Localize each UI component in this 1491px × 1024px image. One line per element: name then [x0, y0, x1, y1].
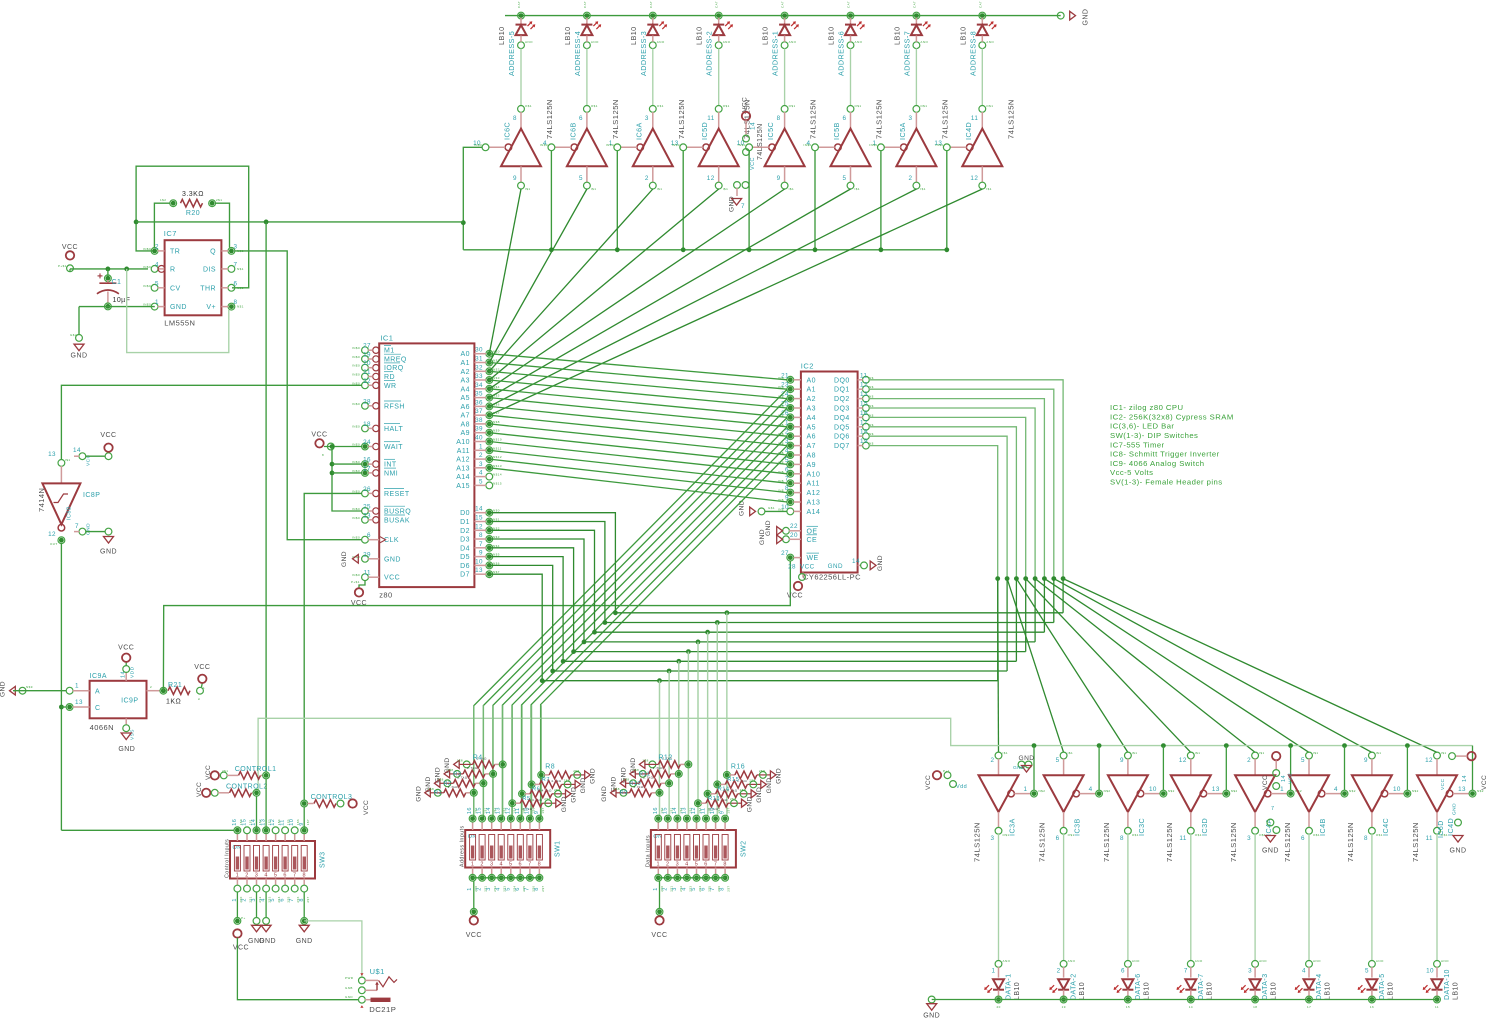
- wire SW3 pin1 to VCC: [236, 892, 238, 918]
- svg-text:ADDRESS-6: ADDRESS-6: [837, 31, 846, 76]
- LED DATA-7 LB10: [1187, 961, 1194, 968]
- svg-text:IC2- 256K(32x8) Cypress SRAM: IC2- 256K(32x8) Cypress SRAM: [1110, 412, 1234, 421]
- svg-text:LB10: LB10: [1387, 982, 1394, 1000]
- resistor pulldown R2: [434, 779, 440, 787]
- svg-text:GND: GND: [590, 768, 597, 784]
- svg-text:8: 8: [302, 873, 306, 879]
- svg-text:I$1: I$1: [591, 187, 597, 191]
- svg-text:6: 6: [704, 862, 708, 868]
- wire D1 to SW2: [715, 620, 720, 625]
- svg-text:16: 16: [467, 807, 473, 814]
- pin RFSH IC1: [362, 402, 369, 409]
- svg-text:1: 1: [155, 299, 159, 306]
- svg-text:15: 15: [477, 807, 483, 814]
- ground CE: [777, 535, 783, 544]
- svg-text:IC5B: IC5B: [832, 122, 841, 140]
- wire LED to ground bus: [1063, 990, 1065, 997]
- svg-text:GND: GND: [71, 353, 88, 360]
- svg-text:2: 2: [479, 452, 483, 459]
- wire switch net vertical: [511, 705, 513, 815]
- svg-text:2: 2: [1057, 968, 1061, 975]
- svg-text:O$1: O$1: [1313, 833, 1320, 837]
- svg-text:GND: GND: [100, 549, 117, 556]
- svg-text:A4: A4: [461, 386, 470, 393]
- svg-text:2: 2: [477, 887, 483, 891]
- wire DQ2 from IC2: [869, 399, 1044, 579]
- svg-text:G$1: G$1: [768, 506, 775, 510]
- svg-text:10: 10: [1149, 786, 1157, 793]
- pin D5 IC1: [486, 553, 493, 560]
- wire enable drop: [748, 151, 750, 250]
- wire buffer to LED: [1063, 834, 1065, 961]
- svg-text:O$1: O$1: [525, 104, 532, 108]
- svg-text:N$2: N$2: [1168, 789, 1175, 793]
- pin A13 IC2: [787, 499, 794, 506]
- svg-text:LM555N: LM555N: [164, 319, 195, 328]
- svg-text:IC8- Schmitt Trigger Inverter: IC8- Schmitt Trigger Inverter: [1110, 450, 1220, 459]
- wire enable drop bottom: [1472, 746, 1474, 791]
- svg-text:I$1: I$1: [920, 187, 926, 191]
- svg-text:VCC: VCC: [787, 593, 803, 600]
- svg-text:CAT: CAT: [517, 1, 521, 8]
- svg-text:74LS125N: 74LS125N: [1346, 822, 1355, 862]
- svg-text:7: 7: [714, 862, 718, 868]
- svg-text:O$1: O$1: [1003, 833, 1010, 837]
- wire enable drop: [550, 151, 552, 250]
- svg-text:2$7: 2$7: [541, 885, 545, 891]
- svg-text:LB10: LB10: [1271, 982, 1278, 1000]
- svg-text:5: 5: [691, 887, 697, 891]
- wire data net D6: [489, 565, 1007, 671]
- IC7 LM555N timer: [165, 240, 222, 315]
- pin A5 IC1: [486, 394, 493, 401]
- pin RESET IC1: [362, 490, 369, 497]
- svg-text:19: 19: [363, 352, 371, 359]
- svg-text:10µF: 10µF: [113, 297, 131, 304]
- svg-text:RESET: RESET: [384, 491, 410, 498]
- svg-text:2$8: 2$8: [564, 778, 570, 782]
- svg-text:GND: GND: [384, 556, 401, 563]
- LED ADDRESS-7 LB10: [914, 13, 919, 18]
- pin A11 IC2: [787, 480, 794, 487]
- wire R20 to TR: [154, 203, 170, 247]
- resistor CONTROL3: [301, 800, 308, 807]
- pin M1 IC1: [362, 347, 369, 354]
- svg-text:I$1: I$1: [1195, 751, 1201, 755]
- svg-text:DATA-1: DATA-1: [1006, 973, 1013, 1000]
- wire LED to buffer: [586, 36, 588, 42]
- svg-text:A2: A2: [807, 396, 816, 403]
- svg-text:IN$0: IN$0: [869, 143, 877, 147]
- svg-text:74LS125N: 74LS125N: [757, 123, 764, 160]
- pin DQ1 IC2: [863, 386, 870, 393]
- svg-text:5: 5: [843, 175, 847, 182]
- svg-text:1: 1: [657, 862, 661, 868]
- svg-text:3: 3: [645, 115, 649, 122]
- wire D0 to SW2: [725, 610, 730, 615]
- svg-text:IN$0: IN$0: [804, 143, 812, 147]
- svg-text:I$1: I$1: [789, 187, 795, 191]
- LED DATA-5 LB10: [1369, 961, 1376, 968]
- svg-text:IN$0: IN$0: [352, 424, 360, 428]
- svg-text:D1: D1: [460, 519, 470, 526]
- svg-text:2: 2: [908, 175, 912, 182]
- svg-text:LB10: LB10: [1079, 982, 1086, 1000]
- wire VCC U to V+ pin: [127, 269, 229, 353]
- svg-text:2: 2: [662, 887, 668, 891]
- svg-text:N$9: N$9: [26, 685, 33, 689]
- svg-text:74LS125N: 74LS125N: [611, 99, 620, 139]
- DIP switch SW2 Data Inputs: [651, 830, 736, 868]
- switch element 1 SW3: [234, 846, 240, 872]
- svg-text:RD: RD: [384, 374, 395, 381]
- power VCC 4066: [125, 672, 127, 681]
- svg-text:IC1- zilog z80 CPU: IC1- zilog z80 CPU: [1110, 403, 1183, 412]
- switch element 4 SW2: [684, 835, 690, 861]
- wire DQ3 to buffer: [1035, 579, 1255, 753]
- svg-text:N$2: N$2: [1104, 789, 1111, 793]
- svg-text:DATA-5: DATA-5: [1379, 973, 1386, 1000]
- wire SW2 bottom bus: [658, 877, 725, 879]
- svg-text:GND: GND: [766, 777, 773, 793]
- svg-text:1: 1: [471, 862, 475, 868]
- svg-text:IC6C: IC6C: [503, 122, 512, 140]
- svg-text:LB10: LB10: [1325, 982, 1332, 1000]
- svg-text:GND: GND: [170, 304, 187, 311]
- pin A10 IC2: [787, 470, 794, 477]
- svg-text:D0: D0: [460, 510, 470, 517]
- wire LED to buffer: [652, 36, 654, 42]
- svg-text:WAIT: WAIT: [384, 444, 403, 451]
- svg-text:11: 11: [1426, 835, 1433, 842]
- svg-text:Vdd: Vdd: [956, 784, 967, 790]
- pin A3 IC1: [486, 377, 493, 384]
- svg-text:26: 26: [363, 486, 371, 493]
- svg-text:18: 18: [860, 429, 868, 436]
- svg-text:DATA-6: DATA-6: [1135, 973, 1142, 1000]
- svg-text:CAT: CAT: [715, 1, 719, 8]
- svg-text:7: 7: [1184, 968, 1188, 975]
- svg-text:I$1: I$1: [723, 187, 729, 191]
- pin A12 IC2: [787, 489, 794, 496]
- svg-text:A8: A8: [461, 421, 470, 428]
- resistor pulldown R16: [724, 772, 731, 779]
- svg-text:CY62256LL-PC: CY62256LL-PC: [803, 573, 861, 582]
- switch element 3 SW2: [674, 835, 680, 861]
- svg-text:74LS125N: 74LS125N: [1006, 99, 1015, 139]
- svg-text:7: 7: [710, 887, 716, 891]
- svg-text:SW1: SW1: [555, 840, 562, 857]
- svg-text:A13: A13: [456, 465, 470, 472]
- svg-text:8: 8: [538, 862, 542, 868]
- wire enable drop bottom: [1288, 743, 1293, 748]
- resistor R21 1K: [168, 687, 190, 695]
- pin A5 IC2: [787, 423, 794, 430]
- svg-text:2$8: 2$8: [573, 769, 579, 773]
- pin TR IC7: [151, 248, 158, 255]
- power VCC R21: [201, 683, 204, 687]
- svg-text:IN$0: IN$0: [143, 284, 151, 288]
- pin A9 IC1: [486, 429, 493, 436]
- svg-text:IC5C: IC5C: [766, 122, 775, 140]
- svg-text:N$13: N$13: [493, 464, 502, 468]
- svg-text:DIS: DIS: [203, 266, 216, 273]
- pin WR IC1: [362, 382, 369, 389]
- svg-text:2: 2: [155, 243, 159, 250]
- pin NMI IC1: [362, 470, 369, 477]
- svg-text:A3: A3: [461, 378, 470, 385]
- pin A14 IC2: [787, 508, 794, 515]
- wire LED to ground bus: [998, 990, 1000, 997]
- svg-text:5: 5: [1365, 968, 1369, 975]
- svg-text:DQ7: DQ7: [834, 443, 850, 450]
- svg-text:IN$0: IN$0: [352, 364, 360, 368]
- svg-text:DQ4: DQ4: [834, 415, 850, 422]
- svg-text:2: 2: [1247, 757, 1251, 764]
- wire 555 trigger to control1 net: [136, 221, 463, 223]
- svg-text:G$2: G$2: [70, 333, 77, 337]
- pin OE IC2: [783, 527, 790, 534]
- pin A3 IC2: [787, 405, 794, 412]
- pin INT IC1: [362, 461, 369, 468]
- svg-text:1$7: 1$7: [727, 807, 731, 813]
- wire switch net vertical: [540, 705, 542, 815]
- resistor pulldown R8: [538, 772, 545, 779]
- buffer IC4B 74LS125N bottom: [1306, 752, 1313, 759]
- svg-text:GND: GND: [759, 529, 766, 545]
- pin A7 IC1: [486, 412, 493, 419]
- svg-text:IN$0: IN$0: [352, 536, 360, 540]
- wire switch net vertical: [473, 705, 475, 815]
- DIP switch SW3 Control Inputs: [230, 841, 315, 879]
- wire R21 to IC2 WE: [161, 688, 166, 693]
- svg-text:N$2: N$2: [1039, 789, 1046, 793]
- svg-text:IN$0: IN$0: [352, 373, 360, 377]
- switch element 1 SW2: [655, 835, 661, 861]
- svg-text:9: 9: [1120, 757, 1124, 764]
- wire buffer to LED: [1308, 834, 1310, 961]
- pin A IC9A: [66, 687, 73, 694]
- wire R20 to Q: [215, 203, 229, 247]
- svg-text:O$1: O$1: [1068, 833, 1075, 837]
- pin A0 IC2: [787, 376, 794, 383]
- svg-text:20: 20: [790, 532, 798, 539]
- pin D7 IC1: [486, 571, 493, 578]
- svg-text:16: 16: [363, 457, 371, 464]
- wire GND net 555: [79, 306, 155, 308]
- svg-text:N$1: N$1: [237, 267, 244, 271]
- svg-text:12: 12: [691, 807, 697, 814]
- svg-text:20: 20: [997, 1005, 1001, 1009]
- svg-text:1$7: 1$7: [306, 819, 310, 825]
- svg-text:IC6D: IC6D: [1438, 820, 1445, 838]
- buffer IC5A 74LS125N: [913, 106, 920, 113]
- svg-text:VCC: VCC: [1440, 778, 1446, 790]
- svg-text:74LS125N: 74LS125N: [1102, 822, 1111, 862]
- wire 7414 out to 4066: [60, 543, 62, 830]
- svg-text:11: 11: [1179, 835, 1186, 842]
- wire switch net vertical: [492, 705, 494, 815]
- svg-text:6: 6: [579, 115, 583, 122]
- svg-text:GND: GND: [923, 1013, 940, 1020]
- pin RD IC1: [362, 373, 369, 380]
- svg-text:ANO: ANO: [920, 40, 928, 44]
- svg-text:5: 5: [274, 873, 278, 879]
- svg-text:GND: GND: [345, 995, 353, 999]
- svg-text:17: 17: [860, 419, 868, 426]
- svg-text:IC(3,6)- LED Bar: IC(3,6)- LED Bar: [1110, 422, 1174, 431]
- svg-text:13: 13: [1212, 786, 1220, 793]
- pin DQ0 IC2: [863, 376, 870, 383]
- svg-text:N$10: N$10: [493, 438, 502, 442]
- svg-text:ANO: ANO: [723, 40, 731, 44]
- switch element 3 SW3: [254, 846, 260, 872]
- svg-text:1$7: 1$7: [541, 807, 545, 813]
- svg-text:29: 29: [363, 551, 371, 558]
- wire LED to buffer: [784, 36, 786, 42]
- svg-text:7: 7: [289, 898, 295, 902]
- svg-text:30: 30: [475, 347, 483, 354]
- svg-text:O$1: O$1: [855, 104, 862, 108]
- svg-text:D2: D2: [460, 528, 470, 535]
- svg-text:13: 13: [475, 567, 483, 574]
- svg-text:ADDRESS-1: ADDRESS-1: [771, 31, 780, 76]
- wire data net D4: [489, 548, 1025, 652]
- wire SW3 grounds: [256, 892, 258, 918]
- wire data net D7: [489, 574, 997, 681]
- svg-text:2.7kΩ: 2.7kΩ: [643, 775, 653, 779]
- svg-text:VCC: VCC: [1288, 772, 1294, 784]
- pin A8 IC1: [486, 421, 493, 428]
- wire switch net vertical: [531, 705, 533, 815]
- svg-text:74LS125N: 74LS125N: [545, 99, 554, 139]
- svg-text:6: 6: [701, 887, 707, 891]
- wire DQ6 from IC2: [869, 436, 1007, 578]
- buffer IC3B 74LS125N bottom: [1060, 752, 1067, 759]
- svg-text:1: 1: [1024, 786, 1028, 793]
- svg-text:GND: GND: [738, 500, 745, 516]
- wire switch net vertical: [521, 705, 523, 815]
- switch element 8 SW1: [536, 835, 542, 861]
- wire buffer to LED: [1436, 834, 1438, 961]
- svg-text:GND: GND: [580, 777, 587, 793]
- svg-text:8: 8: [723, 862, 727, 868]
- svg-text:DQ3: DQ3: [834, 406, 850, 413]
- svg-text:R7: R7: [542, 777, 550, 783]
- svg-text:12: 12: [270, 819, 276, 826]
- wire top LED supply bus: [505, 15, 1061, 17]
- svg-text:D5: D5: [460, 554, 470, 561]
- svg-text:ADDRESS-2: ADDRESS-2: [705, 31, 714, 76]
- wire enable drop: [682, 151, 684, 250]
- svg-text:12: 12: [48, 531, 56, 538]
- svg-text:Control Inputs: Control Inputs: [225, 839, 231, 878]
- svg-text:SW2: SW2: [740, 840, 747, 857]
- wire switch net vertical: [687, 652, 689, 816]
- svg-text:28: 28: [363, 398, 371, 405]
- wire DQ5 from IC2: [869, 427, 1016, 579]
- svg-text:N$2: N$2: [493, 367, 500, 371]
- svg-text:3: 3: [908, 115, 912, 122]
- svg-text:ANO: ANO: [1441, 959, 1449, 963]
- svg-text:A10: A10: [456, 439, 470, 446]
- svg-text:SV(1-3)- Female Header pins: SV(1-3)- Female Header pins: [1110, 478, 1223, 487]
- svg-text:GND: GND: [86, 523, 92, 535]
- LED DATA-1 LB10: [995, 961, 1002, 968]
- svg-text:19: 19: [860, 438, 868, 445]
- svg-text:LB10: LB10: [892, 26, 901, 45]
- pin GND IC2: [858, 564, 861, 566]
- svg-text:2$8: 2$8: [740, 788, 746, 792]
- pin HALT IC1: [362, 425, 369, 432]
- svg-text:6: 6: [283, 873, 287, 879]
- svg-text:A: A: [95, 689, 100, 696]
- svg-text:A7: A7: [807, 443, 816, 450]
- svg-text:15: 15: [1126, 1005, 1130, 1009]
- svg-text:4066N: 4066N: [90, 723, 114, 732]
- svg-text:ADDRESS-5: ADDRESS-5: [507, 31, 516, 76]
- svg-text:3: 3: [1248, 968, 1252, 975]
- svg-text:DATA-2: DATA-2: [1071, 973, 1078, 1000]
- wire buffer to LED: [1371, 834, 1373, 961]
- svg-text:M1: M1: [384, 348, 395, 355]
- svg-text:ANO: ANO: [1313, 959, 1321, 963]
- ground IC3 power: [1018, 761, 1025, 768]
- svg-text:2$1: 2$1: [216, 198, 222, 202]
- svg-text:1: 1: [75, 683, 79, 690]
- wire switch net vertical: [716, 623, 718, 816]
- svg-text:36: 36: [475, 399, 483, 406]
- svg-text:D7: D7: [460, 572, 470, 579]
- LED ADDRESS-2 LB10: [716, 13, 721, 18]
- svg-text:1: 1: [1280, 786, 1284, 793]
- svg-text:2$7: 2$7: [727, 885, 731, 891]
- svg-text:A8: A8: [807, 453, 816, 460]
- wire CONTROL2 to SW3: [256, 796, 258, 830]
- svg-text:5: 5: [579, 175, 583, 182]
- svg-text:CV: CV: [170, 285, 181, 292]
- wire switch net vertical: [668, 671, 670, 816]
- wire data net D0: [489, 513, 1063, 613]
- svg-text:BUSRQ: BUSRQ: [384, 509, 411, 516]
- svg-text:ANO: ANO: [1068, 959, 1076, 963]
- DIP switch SW1 Address Inputs: [465, 830, 550, 868]
- svg-text:4: 4: [685, 862, 689, 868]
- svg-text:I$1: I$1: [1068, 751, 1074, 755]
- wire D7 to SW2: [657, 678, 662, 683]
- svg-text:14: 14: [750, 122, 757, 130]
- svg-text:VCC: VCC: [1262, 775, 1269, 790]
- svg-text:7414N: 7414N: [37, 488, 46, 512]
- svg-text:R4: R4: [473, 755, 483, 762]
- svg-text:ANO: ANO: [855, 40, 863, 44]
- svg-text:z80: z80: [379, 590, 392, 599]
- svg-text:IN$0: IN$0: [352, 573, 360, 577]
- wire DQ7 from IC2: [869, 446, 998, 579]
- svg-text:VCC: VCC: [925, 775, 932, 790]
- svg-text:R21: R21: [168, 682, 182, 689]
- pin GND IC1: [362, 555, 369, 562]
- power pins group IC5/IC6: [742, 112, 750, 120]
- svg-text:15: 15: [242, 819, 248, 826]
- wire buffer to LED: [1254, 834, 1256, 961]
- svg-text:8: 8: [785, 485, 789, 492]
- ground IC5/IC6 power: [734, 182, 741, 189]
- svg-text:IN$0: IN$0: [474, 143, 482, 147]
- switch element 7 SW1: [527, 835, 533, 861]
- svg-text:12: 12: [970, 175, 978, 182]
- svg-text:CONTROL3: CONTROL3: [311, 794, 353, 801]
